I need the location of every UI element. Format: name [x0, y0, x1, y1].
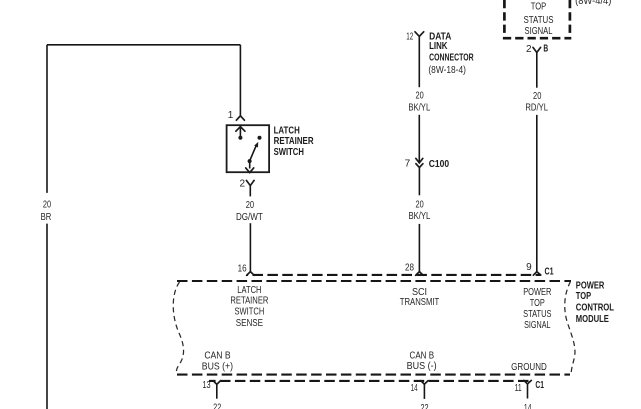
wire left vertical lower — [46, 224, 48, 409]
svg-text:DG/WT: DG/WT — [236, 212, 263, 223]
svg-text:C1: C1 — [545, 266, 554, 277]
svg-text:STATUS: STATUS — [524, 15, 554, 26]
svg-text:LATCH: LATCH — [274, 125, 300, 136]
wire BK/YL down to module pin 28 — [418, 224, 420, 272]
pin 11 connector fork — [524, 380, 532, 384]
connector C100 symbol — [416, 158, 423, 163]
wire RD/YL down to module pin 9 — [536, 115, 538, 272]
pin 1 connector fork — [236, 116, 244, 120]
svg-text:SIGNAL: SIGNAL — [525, 26, 553, 37]
svg-text:TOP: TOP — [576, 291, 591, 302]
svg-text:1: 1 — [228, 110, 234, 121]
svg-text:TOP: TOP — [531, 2, 547, 13]
switch pivot dot — [248, 159, 252, 163]
svg-text:(8W-4/4): (8W-4/4) — [575, 0, 611, 7]
svg-text:GROUND: GROUND — [511, 362, 547, 373]
module box bottom border — [177, 374, 570, 376]
pin 14 connector fork — [421, 381, 428, 385]
svg-text:(8W-18-4): (8W-18-4) — [428, 65, 466, 76]
latch retainer switch S1 box — [227, 125, 270, 172]
svg-text:RETAINER: RETAINER — [274, 136, 314, 147]
module connector C1 dashed line top — [247, 274, 541, 276]
svg-text:C1: C1 — [535, 380, 544, 391]
svg-text:7: 7 — [405, 158, 411, 169]
svg-text:SWITCH: SWITCH — [274, 147, 304, 158]
svg-text:2: 2 — [526, 44, 532, 55]
svg-text:20: 20 — [43, 200, 52, 211]
switch right contact dot — [258, 136, 262, 140]
svg-text:20: 20 — [533, 91, 542, 102]
svg-text:STATUS: STATUS — [523, 309, 552, 320]
svg-text:11: 11 — [515, 383, 522, 394]
top status signal module box (cut off at top) — [503, 0, 506, 36]
module torn left edge — [173, 282, 183, 374]
svg-text:2: 2 — [239, 178, 245, 189]
wire from top status box — [536, 53, 538, 88]
wire stub below pin 2 — [249, 186, 251, 197]
svg-text:MODULE: MODULE — [576, 314, 609, 325]
module connector C1 dashed line bottom — [209, 380, 532, 382]
svg-text:LINK: LINK — [429, 41, 448, 52]
svg-text:BK/YL: BK/YL — [408, 211, 430, 222]
svg-text:BUS (-): BUS (-) — [407, 361, 437, 372]
pin 9 connector fork — [533, 272, 541, 276]
switch arm with arrowhead — [250, 145, 257, 161]
svg-text:BK/YL: BK/YL — [408, 103, 430, 114]
svg-text:SIGNAL: SIGNAL — [524, 320, 551, 331]
pin 13 wire stub — [216, 384, 218, 398]
wire BK/YL to C100 — [418, 115, 420, 163]
svg-text:BR: BR — [41, 212, 52, 223]
svg-text:LATCH: LATCH — [237, 285, 261, 296]
svg-text:22: 22 — [213, 403, 221, 409]
svg-text:CAN B: CAN B — [410, 351, 435, 362]
svg-text:RD/YL: RD/YL — [525, 103, 548, 114]
wire to latch retainer switch pin 1 — [239, 45, 241, 116]
svg-text:16: 16 — [238, 263, 247, 274]
svg-text:TOP: TOP — [530, 298, 545, 309]
svg-text:20: 20 — [246, 200, 255, 211]
svg-text:CAN B: CAN B — [204, 350, 231, 361]
svg-text:12: 12 — [406, 32, 413, 43]
pin 11 wire stub — [527, 384, 529, 399]
svg-text:28: 28 — [405, 263, 414, 274]
wire left vertical upper (20 BR branch) — [46, 45, 48, 193]
wire top horizontal — [47, 44, 240, 46]
svg-text:SENSE: SENSE — [236, 318, 264, 329]
wire DG/WT down to module pin 16 — [249, 223, 251, 271]
pin 16 connector fork — [247, 272, 255, 276]
svg-text:POWER: POWER — [576, 280, 605, 291]
svg-text:C100: C100 — [429, 159, 450, 170]
power top control module box: top border — [177, 280, 571, 282]
wire from DLC down — [418, 36, 420, 87]
pin B connector fork — [533, 47, 541, 52]
svg-text:BUS (+): BUS (+) — [202, 362, 233, 373]
svg-text:22: 22 — [420, 403, 428, 409]
svg-text:CONNECTOR: CONNECTOR — [429, 52, 474, 63]
wire below C100 — [418, 168, 420, 196]
svg-text:20: 20 — [416, 91, 425, 102]
svg-text:B: B — [543, 44, 548, 55]
svg-text:14: 14 — [524, 403, 532, 409]
data link connector pin 12 fork — [415, 32, 424, 37]
svg-text:POWER: POWER — [523, 287, 551, 298]
svg-text:SWITCH: SWITCH — [235, 306, 265, 317]
pin 13 connector fork — [213, 381, 221, 385]
switch upper contact arrow — [239, 128, 241, 138]
svg-text:CONTROL: CONTROL — [576, 303, 614, 314]
switch lower arrow to pin 2 — [249, 161, 251, 168]
module torn right edge — [565, 282, 575, 375]
pin 2 connector fork — [246, 180, 254, 185]
svg-text:13: 13 — [202, 380, 211, 391]
svg-text:TRANSMIT: TRANSMIT — [400, 297, 440, 308]
pin 28 connector fork — [416, 272, 424, 276]
svg-text:20: 20 — [416, 200, 425, 211]
switch left contact dot — [238, 136, 242, 140]
svg-text:9: 9 — [526, 262, 532, 273]
svg-text:RETAINER: RETAINER — [230, 296, 268, 307]
pin 14 wire stub — [423, 384, 425, 399]
svg-text:14: 14 — [411, 383, 418, 394]
